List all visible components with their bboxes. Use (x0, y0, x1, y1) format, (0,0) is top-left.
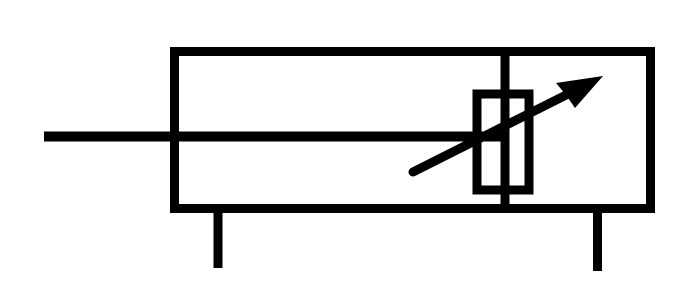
piston (full-height vertical bar) (501, 51, 510, 208)
left port line (214, 209, 223, 268)
cushioning rectangle (adjustable cushion on piston) (477, 94, 529, 190)
adjustability arrow head (556, 76, 603, 108)
cylinder barrel (body rectangle) (175, 52, 651, 209)
piston rod (enters from left, through left end cap to piston) (44, 132, 504, 142)
adjustability arrow shaft (diagonal across cushion) (413, 89, 578, 172)
right port line (593, 209, 602, 271)
